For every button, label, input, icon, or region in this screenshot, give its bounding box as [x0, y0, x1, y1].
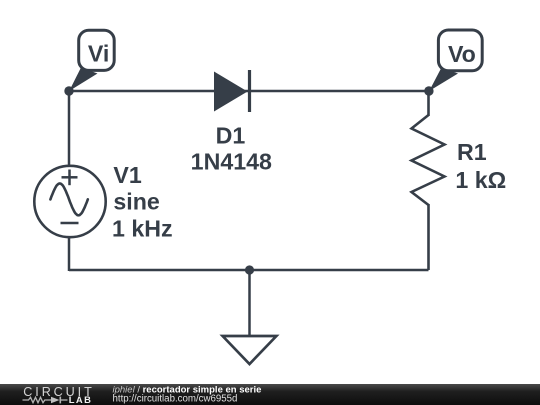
svg-text:1N4148: 1N4148	[191, 149, 272, 175]
svg-text:Vo: Vo	[448, 41, 476, 67]
junction ground node	[245, 265, 254, 274]
wire left rail upper (Vi node to V1 top)	[68, 91, 71, 167]
ground	[223, 270, 277, 364]
value label V1 sine 1 kHz	[112, 162, 173, 242]
voltage source V1	[34, 166, 105, 237]
svg-text:LAB: LAB	[69, 394, 92, 405]
wire bottom rail	[69, 269, 429, 272]
svg-text:V1: V1	[113, 162, 141, 188]
svg-text:D1: D1	[216, 123, 246, 149]
footer bar	[0, 384, 540, 405]
value label R1 1 kOhm	[455, 139, 506, 193]
svg-text:http://circuitlab.com/cw6955d: http://circuitlab.com/cw6955d	[113, 393, 238, 404]
svg-text:R1: R1	[457, 139, 487, 165]
svg-text:1 kHz: 1 kHz	[112, 215, 173, 241]
CircuitLab logo wordmark CIRCUIT	[23, 385, 94, 399]
wire top rail Vi to Vo	[69, 90, 429, 93]
resistor R1	[412, 115, 445, 205]
footer credit line	[113, 384, 262, 404]
node Vi	[64, 30, 114, 96]
wire right rail lower (R1 bottom to bottom rail)	[427, 204, 430, 270]
wire right rail upper (Vo node to R1 top)	[427, 91, 430, 116]
svg-text:Vi: Vi	[88, 41, 110, 67]
wire left rail lower (V1 bottom to bottom rail)	[68, 236, 71, 271]
svg-text:sine: sine	[113, 189, 160, 215]
CircuitLab logo schematic icon (resistor + diode wire)	[23, 397, 68, 404]
diode D1	[214, 70, 250, 112]
node Vo	[424, 30, 482, 96]
svg-text:1 kΩ: 1 kΩ	[455, 167, 506, 193]
value label D1 1N4148	[191, 123, 272, 175]
CircuitLab logo wordmark LAB	[69, 394, 92, 405]
